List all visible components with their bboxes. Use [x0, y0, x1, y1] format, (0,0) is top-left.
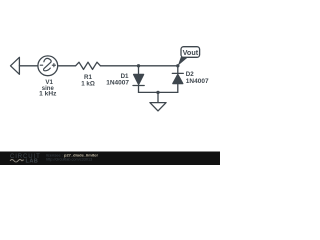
svg-text:http://circuitlab.com/c33013: http://circuitlab.com/c33013: [46, 158, 92, 162]
svg-text:1 kHz: 1 kHz: [39, 91, 57, 98]
wire terminal to V1: [19, 65, 38, 67]
Vout flag pointer: [178, 57, 188, 66]
watermark logo sine: [10, 160, 24, 163]
resistor R1: [76, 62, 101, 69]
Vout flag box: [181, 47, 200, 58]
svg-text:LAB: LAB: [26, 159, 39, 165]
bottom wire D1 to D2: [139, 91, 178, 93]
ground: [150, 92, 166, 111]
diode D1: [133, 66, 144, 93]
node junction at D2 top: [176, 64, 179, 67]
wire V1 to R1: [58, 65, 76, 67]
wire R1 to node at D2 top: [100, 65, 177, 67]
svg-text:1 kΩ: 1 kΩ: [81, 81, 95, 88]
V1 plus sign: [52, 64, 55, 67]
voltage source V1: [38, 56, 58, 76]
node junction at D1 top: [137, 64, 140, 67]
svg-text:Vout: Vout: [183, 48, 199, 57]
node junction at ground tap: [156, 91, 159, 94]
svg-text:1N4007: 1N4007: [186, 78, 209, 85]
watermark bar: [0, 152, 220, 166]
svg-text:1N4007: 1N4007: [106, 79, 129, 86]
diode D2: [172, 66, 183, 93]
V1 sine symbol: [44, 58, 52, 70]
V1 minus sign: [40, 64, 43, 66]
input terminal (left arrow): [11, 57, 20, 74]
